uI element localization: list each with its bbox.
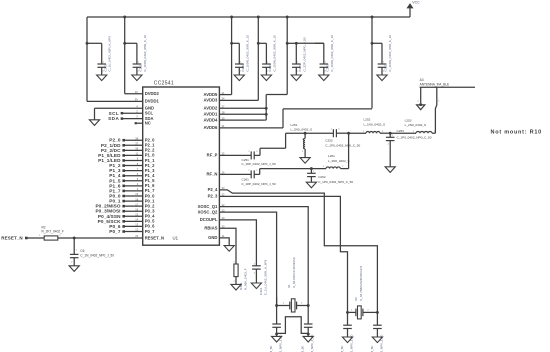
ground C253 [385, 167, 395, 173]
svg-text:AVDD1: AVDD1 [204, 112, 219, 117]
junction node C201 [86, 42, 89, 45]
svg-text:L_2N0_0402_S: L_2N0_0402_S [328, 159, 350, 163]
svg-text:C_100N_0402_X5R_K_10: C_100N_0402_X5R_K_10 [272, 35, 276, 72]
capacitor C253 [389, 133, 391, 137]
power symbol VCC [407, 4, 413, 8]
wire RF_P stair [254, 154, 260, 156]
wire AVDD5 [219, 94, 231, 96]
ground L251 [300, 158, 310, 164]
wire RBIAS [219, 228, 236, 264]
svg-text:X_32.768K/20/30/40/12.5: X_32.768K/20/30/40/12.5 [359, 266, 363, 301]
ground X2 right [372, 337, 382, 343]
wire RF_P lead [219, 154, 251, 156]
ground X1 right [307, 334, 309, 336]
wire XOSC_Q2 [219, 212, 276, 305]
svg-text:C401: C401 [259, 287, 263, 295]
wire RESET to chip [74, 237, 143, 239]
svg-text:C_15P_0402_NP0_J_50: C_15P_0402_NP0_J_50 [301, 345, 305, 352]
svg-text:CC2541: CC2541 [154, 80, 174, 86]
capacitor C271 [287, 42, 296, 44]
antenna ground stub [419, 103, 422, 106]
ground C262 [306, 182, 316, 188]
crystal X1 [276, 297, 278, 305]
svg-text:SCL: SCL [109, 111, 120, 116]
svg-text:AVDD4: AVDD4 [204, 117, 219, 122]
svg-text:L252: L252 [364, 118, 371, 122]
svg-text:C_1P0_0402_NP0_C_50: C_1P0_0402_NP0_C_50 [325, 144, 360, 148]
capacitor X2 right load [376, 312, 378, 325]
ground GND left pin [89, 120, 99, 126]
crystal X2 [346, 311, 349, 314]
wire DCOUPL [219, 220, 256, 266]
svg-text:AVDD2: AVDD2 [204, 106, 219, 111]
wire X1 cap bridge [277, 317, 309, 334]
svg-text:C231: C231 [241, 64, 245, 72]
svg-text:DVDD1: DVDD1 [145, 99, 160, 104]
ground C281 [319, 75, 329, 81]
junction RF merge [347, 132, 350, 135]
svg-text:L251: L251 [291, 123, 298, 127]
svg-text:L_2N0_0402_S: L_2N0_0402_S [405, 123, 427, 127]
inductor L261 [326, 167, 340, 169]
svg-text:C_12P_0402_NP0_J_50: C_12P_0402_NP0_J_50 [370, 345, 374, 352]
wire P2_3 [219, 196, 347, 312]
svg-text:C_100N_0402_X5R_K_10: C_100N_0402_X5R_K_10 [388, 35, 392, 72]
wire rail to AVDD6 [371, 17, 373, 108]
svg-text:AVDD5: AVDD5 [204, 92, 219, 97]
junction rail x287.2 [286, 16, 289, 19]
inductor L253 [390, 132, 416, 134]
wire rail to AVDD3 [257, 17, 259, 100]
inductor L252 [349, 132, 366, 134]
svg-text:L_1N0_0402_S: L_1N0_0402_S [364, 122, 386, 126]
capacitor C231 [232, 42, 240, 44]
capacitor C201 [87, 42, 102, 44]
svg-text:C_1P0_0402_NP0_C_50: C_1P0_0402_NP0_C_50 [318, 180, 353, 184]
capacitor X1 left load [276, 306, 278, 325]
wire DVDD2 [125, 93, 143, 95]
wire XOSC_Q1 [219, 207, 308, 306]
svg-text:RBIAS: RBIAS [204, 226, 217, 231]
capacitor C311 [372, 42, 382, 44]
svg-text:X2: X2 [354, 297, 358, 301]
svg-text:SCL: SCL [145, 111, 154, 116]
svg-text:P0_7: P0_7 [145, 229, 155, 234]
wire RF_N lead [219, 173, 251, 175]
ground C6 [69, 266, 79, 272]
capacitor C401 [252, 265, 261, 267]
resistor R301 [234, 264, 238, 277]
wire AVDD1 [219, 113, 266, 115]
svg-text:C_100N_0402_X5R_K_10: C_100N_0402_X5R_K_10 [245, 35, 249, 72]
junction rail x372 [371, 16, 374, 19]
capacitor C241 [258, 42, 266, 44]
svg-text:R_56K_0402_F: R_56K_0402_F [243, 268, 247, 290]
wire P2_4 [219, 190, 377, 313]
wire GND left [95, 107, 143, 109]
svg-text:L253: L253 [405, 118, 412, 122]
ground C271 [291, 75, 301, 81]
svg-text:C_1P0_0402_NP0_C_50: C_1P0_0402_NP0_C_50 [397, 135, 432, 139]
wire AVDD124 junction vertical [265, 95, 267, 121]
capacitor X2 left load [347, 312, 349, 325]
ground X1 left [276, 334, 278, 336]
svg-text:RESET_N: RESET_N [1, 236, 22, 241]
ground C201 [97, 75, 107, 81]
svg-text:C211: C211 [139, 64, 143, 71]
svg-text:C262: C262 [318, 175, 326, 179]
resistor R2 [26, 237, 44, 239]
junction rail x231.6 [230, 16, 233, 19]
svg-text:XOSC_Q1: XOSC_Q1 [198, 204, 218, 209]
svg-text:C252: C252 [325, 139, 333, 143]
junction node C211 [123, 42, 126, 45]
svg-text:AVDD3: AVDD3 [204, 98, 219, 103]
node NC [135, 122, 137, 124]
antenna A3 [420, 86, 475, 88]
svg-text:C_18P_0402_NP0_J_50: C_18P_0402_NP0_J_50 [242, 162, 277, 166]
svg-text:C271: C271 [298, 64, 302, 72]
svg-text:RF_P: RF_P [207, 153, 218, 158]
svg-text:C6: C6 [80, 249, 84, 253]
svg-text:C_100N_0402_X5R_K_10: C_100N_0402_X5R_K_10 [143, 35, 147, 72]
op-amp U1 CC2541 body [143, 87, 220, 245]
svg-text:C_15P_0402_NP0_J_50: C_15P_0402_NP0_J_50 [269, 345, 273, 352]
svg-text:P2_4: P2_4 [208, 187, 218, 192]
svg-text:C_1U_0402_X5R_K_6P3: C_1U_0402_X5R_K_6P3 [108, 36, 112, 72]
ground C211 [132, 75, 142, 81]
capacitor C252 [305, 132, 333, 134]
svg-text:RESET_N: RESET_N [145, 235, 164, 240]
wire antenna feed [435, 87, 436, 133]
svg-text:C_1N_0402_NP0_J_50: C_1N_0402_NP0_J_50 [80, 254, 114, 258]
wire rail to AVDD5 [231, 17, 233, 95]
svg-text:VCC: VCC [412, 0, 420, 4]
junction node C281 [295, 42, 298, 45]
svg-text:C201: C201 [103, 64, 107, 72]
junction rail x124.7 [123, 16, 126, 19]
wire DVDD1 [86, 43, 88, 101]
junction rail x258.3 [257, 16, 260, 19]
junction C253 [389, 132, 392, 135]
wire AVDD2 [219, 107, 266, 109]
junction node C241 [257, 42, 260, 45]
svg-text:XOSC_Q2: XOSC_Q2 [198, 209, 218, 214]
ground R301 [231, 284, 241, 290]
wire VCC top rail [87, 16, 410, 18]
wire rail to AVDD124 group [286, 17, 288, 95]
capacitor C281 [315, 42, 324, 44]
svg-text:ANTENNA_IFA_BLE: ANTENNA_IFA_BLE [420, 83, 450, 87]
svg-text:X_32.000/10-20/30/16: X_32.000/10-20/30/16 [292, 257, 296, 288]
capacitor C262 [310, 169, 312, 174]
svg-text:NC: NC [145, 121, 151, 126]
svg-text:U1: U1 [173, 235, 179, 240]
svg-text:DVDD2: DVDD2 [145, 91, 160, 96]
junction AVDD2 [265, 107, 268, 110]
junction C262 [310, 167, 313, 170]
junction AVDD1 [265, 113, 268, 116]
junction node C271 [286, 42, 289, 45]
svg-text:C311: C311 [384, 64, 388, 71]
ground C401 [251, 283, 261, 289]
capacitor C6 [73, 238, 75, 254]
inductor L251 [304, 132, 307, 135]
svg-text:C241: C241 [268, 64, 272, 72]
svg-text:A3: A3 [420, 78, 424, 82]
svg-text:C_12P_0402_NP0_J_50: C_12P_0402_NP0_J_50 [340, 345, 344, 352]
capacitor C251 [250, 151, 252, 159]
svg-text:C261: C261 [242, 178, 250, 182]
svg-text:X1: X1 [287, 284, 291, 288]
svg-text:RF_N: RF_N [206, 172, 217, 177]
svg-text:P0_7: P0_7 [109, 229, 121, 234]
svg-text:L_2N0_0402_S: L_2N0_0402_S [291, 128, 313, 132]
svg-text:C_22P_0402_NP0_J_50: C_22P_0402_NP0_J_50 [302, 37, 306, 72]
svg-text:C_100N_0402_X5R_K_10: C_100N_0402_X5R_K_10 [330, 35, 334, 72]
wire RF_N run [254, 173, 260, 175]
svg-text:C_18P_0402_NP0_J_50: C_18P_0402_NP0_J_50 [242, 182, 277, 186]
ground chip GND [224, 246, 234, 252]
capacitor X1 right load [307, 306, 309, 325]
ground X2 left [342, 337, 352, 343]
svg-text:C_1U_0402_X5R_K_6P3: C_1U_0402_X5R_K_6P3 [263, 259, 267, 295]
svg-text:DCOUPL: DCOUPL [200, 217, 218, 222]
wire AVDD3 [219, 99, 258, 101]
wire L261 up [348, 133, 350, 168]
junction node C311 [371, 42, 374, 45]
wire C271 to C281 [296, 42, 324, 44]
svg-text:GND: GND [208, 235, 217, 240]
svg-text:P2_3: P2_3 [208, 194, 218, 199]
svg-text:AVDD6: AVDD6 [204, 125, 219, 130]
capacitor C211 [125, 42, 137, 44]
wire rail to DVDD2 [124, 17, 126, 94]
svg-text:R_2K7_0402_F: R_2K7_0402_F [42, 230, 64, 234]
ground C231 [234, 75, 244, 81]
svg-text:L261: L261 [328, 154, 335, 158]
svg-text:Not mount: R10: Not mount: R10 [491, 130, 542, 136]
svg-text:SDA: SDA [108, 116, 119, 121]
wire AVDD4 [219, 119, 264, 121]
svg-text:C251: C251 [242, 158, 250, 162]
junction node C231 [230, 42, 233, 45]
ground C241 [261, 75, 271, 81]
wire chip GND [219, 238, 229, 246]
wire AVDD6 stair [219, 127, 283, 129]
svg-text:C281: C281 [325, 64, 329, 72]
junction RESET node [73, 237, 76, 240]
capacitor C261 [250, 170, 252, 178]
ground C311 [377, 75, 387, 81]
